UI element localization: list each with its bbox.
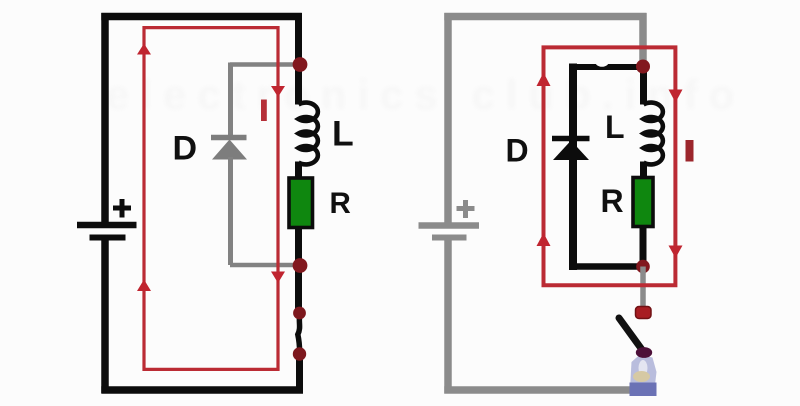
watermark: [106, 71, 745, 118]
wire: left outer top: [101, 13, 301, 21]
diode D (left) cathode bar: [211, 135, 247, 141]
wire: right outer bottom (gray): [444, 386, 645, 394]
wire hop notch on inner top: [595, 56, 609, 67]
spark core (beige): [639, 360, 648, 376]
diode D (right) cathode bar: [552, 136, 590, 142]
switch S2 open lever: [619, 318, 643, 351]
arrow up (right loop, bottom-left): [537, 233, 551, 246]
battery B2 plus sign (gray): [457, 200, 475, 218]
arrow up (right loop, top-left): [537, 73, 551, 87]
node: left top junction: [293, 57, 308, 72]
wire: gray diode branch top horizontal: [230, 62, 296, 67]
svg-text:electronics club.info: electronics club.info: [106, 71, 745, 118]
wire: inner loop top (black): [569, 64, 640, 70]
inductor L (right): [644, 103, 663, 165]
spark contact blob (dark purple): [636, 347, 652, 358]
wire: right outer left lower (gray): [444, 238, 452, 394]
wire: left outer left lower (battery bottom lead): [101, 238, 109, 394]
svg-text:D: D: [506, 133, 529, 169]
wire: left outer left upper (battery top lead): [101, 13, 109, 225]
battery B1 short plate: [90, 235, 126, 241]
battery B1 long plate: [77, 222, 137, 229]
wire: resistor to bottom node (right): [640, 226, 647, 269]
wire: switch to bottom corner: [296, 352, 303, 393]
arrow up (left loop, top-left): [137, 44, 151, 55]
svg-text:R: R: [330, 187, 351, 220]
wire: coil to resistor: [295, 162, 302, 179]
wire: red current loop (left): [144, 28, 278, 370]
wire: left outer right upper: [295, 13, 302, 105]
arrow down (left loop, bottom-right): [271, 272, 285, 284]
wire: gray diode branch vertical lower: [228, 157, 233, 265]
switch S1 (closed) blade: [298, 314, 300, 353]
wire: right outer right upper (gray drop to node): [639, 13, 647, 62]
diode D (left) triangle: [212, 140, 247, 160]
spark glow band (beige): [633, 371, 650, 382]
node: switch top terminal: [293, 307, 306, 320]
arrow down (right loop, top-right): [669, 90, 683, 103]
resistor R (right, green): [633, 178, 653, 227]
switch S2 top terminal: [636, 307, 652, 319]
wire: inner loop left (black, through diode): [569, 64, 577, 271]
spark flame body (blue): [630, 355, 657, 390]
node: switch bottom terminal: [293, 347, 306, 360]
inductor L (left): [299, 103, 318, 165]
wire: left outer bottom: [101, 386, 303, 394]
wire: gray diode branch bottom horizontal: [230, 263, 296, 268]
wire: resistor to bottom node: [295, 228, 302, 310]
arrow down (left loop, top-right): [271, 86, 285, 97]
svg-text:D: D: [173, 130, 198, 168]
svg-text:L: L: [332, 114, 354, 154]
battery B1 plus sign: [113, 199, 131, 218]
arrow up (left loop, bottom-left): [137, 280, 151, 292]
svg-text:R: R: [601, 183, 624, 219]
svg-text:L: L: [605, 109, 625, 145]
resistor R (left, green): [289, 178, 313, 228]
wire: gray stub node to switch terminal: [640, 267, 646, 308]
wire: right outer top (gray): [444, 13, 646, 21]
diode D (right) triangle: [553, 141, 589, 161]
battery B2 long plate (gray): [419, 222, 480, 229]
spark base block (blue): [630, 383, 657, 397]
node: right top junction: [636, 60, 650, 74]
label I (left, red): [261, 100, 267, 122]
wire: inner loop bottom (black): [569, 263, 646, 270]
wire: gray diode branch vertical upper: [228, 63, 233, 136]
wire: coil to resistor (right): [640, 162, 647, 179]
label I (right, red): [686, 140, 694, 162]
wire: red current loop (right): [544, 47, 676, 285]
node: left bottom junction: [293, 258, 308, 273]
battery B2 short plate (gray): [432, 235, 467, 241]
arrow down (right loop, bottom-right): [669, 246, 683, 259]
wire: right outer left upper (gray battery top lead): [444, 13, 452, 225]
node: right bottom junction: [636, 260, 650, 274]
wire: node to coil (black): [640, 63, 647, 105]
